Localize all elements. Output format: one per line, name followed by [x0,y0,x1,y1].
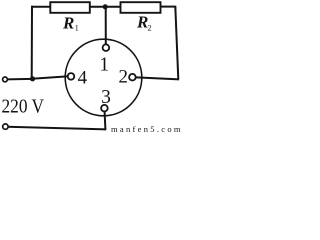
wire junction to left terminal [6,78,33,81]
pin 2 terminal [129,74,136,81]
wire pin 2 to right vertical [134,77,179,79]
svg-text:manfen5.com: manfen5.com [111,124,181,134]
wire R1 to R2 [90,6,121,8]
bottom input terminal [3,124,8,129]
wire bottom horizontal [7,127,106,130]
resistor R1 [50,2,90,13]
svg-text:1: 1 [75,24,79,33]
svg-text:2: 2 [148,24,152,33]
svg-text:220 V: 220 V [2,97,45,118]
svg-text:1: 1 [99,55,109,76]
pin 1 terminal [103,44,110,51]
wire right vertical [175,7,178,80]
wire junction down to pin 1 [105,7,107,46]
svg-text:2: 2 [118,67,128,88]
wire pin 4 to left junction [32,76,69,79]
wire left vertical [31,6,33,79]
junction node on left wire [30,76,35,81]
resistor R2 [121,2,161,13]
device circle (4-pin socket) [65,39,142,116]
pin 4 terminal [68,73,75,80]
svg-text:R: R [136,12,148,31]
left input terminal [3,77,8,82]
junction node between R1 and R2 [103,4,108,9]
svg-text:4: 4 [78,67,88,88]
wire pin 3 down to bottom corner [104,110,107,129]
svg-text:R: R [62,13,74,32]
pin 3 terminal [101,105,108,112]
wire top-left horizontal [31,6,51,8]
wire R2 to top-right corner [161,6,177,8]
svg-text:3: 3 [101,87,111,108]
